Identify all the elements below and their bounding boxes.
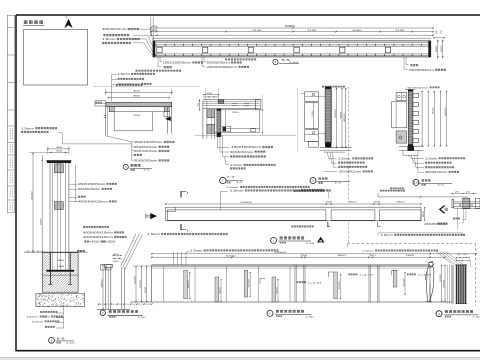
svg-text:50X50X5mm: 50X50X5mm (207, 62, 230, 65)
detail9 right dims (335, 88, 337, 148)
svg-text:6400: 6400 (285, 26, 296, 28)
dashed section line (348, 87, 350, 203)
detail5 dim 400 (106, 92, 172, 94)
detail9 mid panel (305, 103, 319, 129)
svg-text:14500: 14500 (274, 252, 287, 254)
svg-text:-150X150X5mm: -150X150X5mm (230, 146, 261, 149)
svg-text:150X150X5mm: 150X150X5mm (163, 62, 192, 65)
svg-text:600: 600 (219, 287, 221, 293)
svg-text:30X30X2mm: 30X30X2mm (407, 87, 429, 89)
svg-text:360: 360 (113, 261, 119, 263)
detail10 lower box (396, 131, 407, 143)
elev2 dim line segments (152, 256, 445, 258)
detail9 top bolt box (305, 92, 319, 102)
svg-text:100mm: 100mm (32, 321, 44, 323)
detail5 channel (114, 111, 164, 113)
svg-text:800: 800 (423, 211, 425, 217)
elev1 gap brackets (327, 222, 330, 227)
svg-text:30X30X2mm: 30X30X2mm (425, 172, 448, 174)
elev2 dim line overall (152, 253, 476, 255)
detail9 bottom box (309, 141, 319, 147)
detail7 right ext line + dim (262, 95, 264, 135)
detail6 left dims (32, 153, 34, 253)
detail6 embed-plate note block (83, 226, 85, 228)
detail9 central column (325, 87, 331, 89)
svg-text:6400: 6400 (226, 255, 237, 257)
svg-text:40: 40 (463, 254, 467, 256)
detail circle 2 (267, 310, 273, 316)
svg-text:1.5mm: 1.5mm (21, 127, 34, 130)
svg-text:50X50X5mm: 50X50X5mm (134, 160, 157, 163)
svg-text:100mm: 100mm (27, 317, 39, 319)
detail circle 9 (310, 178, 316, 184)
top band dimension line C (151, 34, 433, 36)
svg-text:50X50X5mm: 50X50X5mm (78, 189, 101, 191)
detail6 right callouts (75, 165, 77, 202)
svg-text:75: 75 (198, 103, 200, 107)
railing mini dims (113, 255, 122, 257)
leader fan to railing detail (121, 234, 137, 267)
detail10 bottom (399, 145, 423, 147)
svg-text:L>300: L>300 (103, 241, 117, 244)
svg-text:-1.5mm: -1.5mm (229, 191, 244, 193)
svg-text:50X70X3mm: 50X70X3mm (134, 150, 157, 153)
top band right-end dims (437, 40, 439, 59)
elev1 band outline (166, 206, 421, 208)
detail10 left panel (392, 102, 407, 128)
small texts near gap (301, 189, 303, 191)
top band labels below-left (160, 57, 162, 62)
svg-text:1000: 1000 (140, 280, 142, 288)
detail6 post rails (49, 163, 51, 270)
top band coping line (153, 37, 431, 39)
svg-text:1.5mm: 1.5mm (362, 251, 374, 253)
louver bars (451, 265, 453, 304)
section cut marks 5 (180, 191, 182, 197)
top band left end post (153, 41, 156, 57)
detail circle 7 (220, 177, 226, 183)
mini post plan (452, 199, 454, 208)
section mark 5-5 (273, 59, 278, 64)
elev2 right dim stack (441, 265, 443, 302)
detail5 cap bar hatched (106, 103, 172, 107)
detail7 top rail (203, 99, 260, 101)
svg-text:1.5mm: 1.5mm (226, 187, 238, 189)
long note with bracket (378, 233, 463, 236)
elev2 left end + joints (151, 265, 153, 302)
sheet border frame (16, 14, 480, 16)
svg-text:170: 170 (151, 26, 157, 28)
detail10 right tabs (413, 94, 419, 98)
svg-text:1.5mm: 1.5mm (338, 159, 351, 161)
svg-text:400X400X10mm: 400X400X10mm (83, 237, 113, 239)
elev2 gap posts (294, 265, 296, 302)
svg-text:1:50: 1:50 (472, 317, 480, 319)
detail5 long extension line (93, 86, 200, 88)
svg-text:L=1:07: L=1:07 (308, 282, 323, 284)
tiny note bottom-left of detail10 (390, 188, 392, 190)
detail9 bottom arm (320, 147, 352, 149)
detail10 callouts (408, 155, 424, 158)
svg-text:400: 400 (56, 147, 62, 149)
railing cap (105, 265, 113, 268)
svg-text:400X400X10mm: 400X400X10mm (83, 233, 113, 235)
detail7 inner bottom band (225, 127, 259, 129)
view direction icon (317, 237, 324, 242)
svg-text:=H10: =H10 (90, 242, 101, 244)
detail7 corner post dark (218, 100, 224, 103)
detail10 bolt boxes (396, 93, 407, 101)
detail6 cap (47, 160, 71, 163)
detail circle 6 (49, 337, 55, 343)
svg-text:1.5mm: 1.5mm (425, 158, 438, 160)
top band labels below-right (204, 57, 206, 62)
top band intermediate posts (157, 47, 162, 53)
detail circle 3 (100, 310, 105, 315)
top band labels far right (406, 57, 409, 65)
elev2 left dim stack (135, 266, 137, 302)
mini plan callouts (462, 209, 466, 220)
top band note text right-mid (225, 58, 227, 60)
elev2 bay annotations (297, 281, 299, 283)
svg-text:400: 400 (58, 266, 64, 268)
svg-text:25: 25 (441, 30, 443, 34)
svg-text:600: 600 (276, 287, 278, 293)
svg-text:1800: 1800 (188, 280, 190, 288)
svg-text:30X30X2mm: 30X30X2mm (230, 151, 253, 154)
svg-text:400: 400 (58, 260, 64, 262)
detail7 top dims (203, 94, 219, 96)
detail circle 4 (436, 311, 442, 317)
elev1 right end dim (424, 207, 426, 221)
svg-text:400X400X20mm: 400X400X20mm (78, 202, 108, 204)
detail7 left dim (199, 99, 201, 110)
top band right end post (428, 41, 431, 57)
svg-text:6-6: 6-6 (57, 338, 66, 341)
top band dimension line A (151, 27, 433, 29)
detail7 top rail end box (256, 99, 261, 110)
detail7 post ladder bar (217, 109, 221, 111)
svg-text:400: 400 (113, 254, 119, 256)
detail6 top dims (48, 148, 69, 150)
detail9 lower bolt box (305, 130, 319, 142)
detail5 upper callouts (111, 74, 113, 101)
svg-text:150: 150 (206, 93, 212, 95)
svg-text:150X150X5mm: 150X150X5mm (78, 184, 105, 186)
detail7 inner rect (215, 110, 260, 132)
svg-text:150: 150 (151, 30, 157, 32)
svg-text:350: 350 (56, 151, 62, 153)
index plan title (24, 21, 27, 24)
top band extension lines (150, 17, 152, 34)
mini plan view arrow chevron (440, 206, 445, 214)
detail7 left column (202, 101, 204, 139)
elev2 inner hatched bars (184, 270, 188, 298)
railing post tops (101, 265, 106, 271)
svg-text:1500: 1500 (440, 274, 442, 282)
detail5 cap end blocks (109, 107, 114, 112)
svg-text:L=1:07: L=1:07 (360, 275, 375, 277)
svg-text:7-7: 7-7 (227, 176, 236, 179)
svg-text:30X30X2mm: 30X30X2mm (339, 172, 362, 174)
north arrow (65, 19, 72, 27)
svg-text:25: 25 (466, 192, 470, 194)
detail5 callout stack (107, 136, 132, 142)
svg-text:2000: 2000 (339, 281, 341, 289)
detail5 dim 360 (108, 97, 169, 99)
svg-text:1.5mm: 1.5mm (118, 74, 131, 76)
svg-text:25X25X3mm: 25X25X3mm (134, 146, 157, 149)
detail7 extension lines from band (204, 88, 206, 101)
railing verticals (105, 267, 107, 309)
anchor plate (46, 270, 74, 272)
dashed reference box (347, 243, 475, 245)
svg-text:150X150X5mm: 150X150X5mm (134, 141, 163, 144)
detail circle 1 (271, 237, 277, 243)
railing ground (97, 308, 130, 310)
svg-text:1.5mm: 1.5mm (381, 235, 394, 237)
svg-text:150: 150 (312, 111, 314, 117)
detail7 ground extension line (195, 134, 296, 136)
anchor bolts (49, 253, 51, 285)
svg-text:1.5mm: 1.5mm (230, 165, 243, 167)
top band rails (153, 40, 431, 42)
detail7 left column hatched boxes (207, 110, 215, 118)
detail6 top cross box (54, 164, 63, 173)
index plan rectangle (24, 30, 88, 86)
svg-text:-60X60X600mm: -60X60X600mm (206, 66, 237, 69)
detail10 right dim lines (421, 91, 423, 146)
detail circle 10 (413, 179, 419, 185)
svg-text:40: 40 (457, 254, 461, 256)
elev2 leader verticals (172, 252, 174, 265)
bracket note above elevation (380, 190, 382, 192)
svg-text:1000: 1000 (352, 30, 363, 32)
railing dim (102, 265, 104, 310)
titleblock strip left (6, 15, 8, 212)
svg-text:1500: 1500 (403, 278, 405, 286)
svg-text:-50X50X5mm: -50X50X5mm (408, 69, 434, 72)
elev1 panels (167, 210, 326, 220)
elev1 leader vertical (219, 192, 221, 210)
svg-text:1135: 1135 (307, 30, 318, 32)
svg-text:1.5mm: 1.5mm (148, 234, 161, 236)
svg-text:2000: 2000 (249, 279, 251, 287)
detail7 bottom connection box (222, 126, 230, 132)
svg-text:14500: 14500 (240, 202, 253, 204)
louver dims (456, 257, 470, 259)
soil label (77, 250, 79, 252)
top band stud ticks (156, 44, 421, 56)
gravel layer (36, 294, 85, 307)
svg-text:1.5mm: 1.5mm (190, 250, 203, 252)
svg-text:1.5mm: 1.5mm (102, 38, 116, 41)
svg-text:1000: 1000 (443, 280, 445, 288)
svg-text:25: 25 (455, 192, 459, 194)
detail10 central column (408, 90, 413, 92)
person figure (429, 262, 433, 266)
svg-text:25: 25 (436, 30, 438, 34)
foundation callouts below (63, 307, 65, 329)
detail9 left extension line (297, 88, 299, 152)
top band dimension line B (151, 31, 433, 33)
svg-text:1500: 1500 (134, 276, 136, 284)
detail9 callouts (327, 152, 337, 159)
detail5 left post lines (105, 107, 107, 136)
louver left frame (447, 265, 449, 304)
ground line (24, 251, 87, 253)
elev2 band bottom / ground (130, 301, 452, 303)
dim ticks line under elevation2 left (97, 303, 152, 305)
svg-text:25X25X3mm: 25X25X3mm (424, 224, 447, 226)
elev2 inner dim lines (189, 272, 191, 299)
detail7 callouts (216, 135, 218, 147)
detail5 arrow marker (165, 117, 170, 121)
detail6 foundation block (43, 253, 79, 293)
svg-text:1135: 1135 (395, 30, 406, 32)
elev1 left view arrow (151, 213, 157, 219)
svg-text:500: 500 (145, 287, 147, 293)
detail5 right post lines (167, 107, 169, 134)
detail9 top note (322, 86, 324, 88)
svg-text:1135: 1135 (252, 30, 263, 32)
detail circle 5 (123, 164, 128, 169)
svg-text:30X30X2mm: 30X30X2mm (102, 28, 126, 31)
mini plan dims (451, 193, 478, 195)
elev2 band top (152, 264, 430, 266)
elev1 dim line (166, 203, 421, 205)
detail6 mid cross box (54, 202, 63, 210)
top band note text mid (136, 70, 138, 72)
detail5 left wall stub (95, 101, 106, 106)
